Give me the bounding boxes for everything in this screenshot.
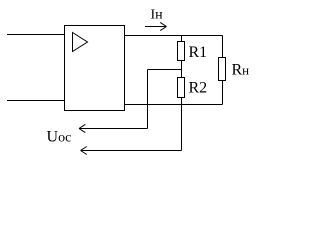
svg-text:Rн: Rн [232, 62, 250, 79]
svg-text:Iн: Iн [151, 8, 164, 23]
svg-text:R1: R1 [189, 44, 208, 61]
svg-text:Uoc: Uoc [47, 129, 72, 146]
svg-text:R2: R2 [189, 80, 208, 97]
